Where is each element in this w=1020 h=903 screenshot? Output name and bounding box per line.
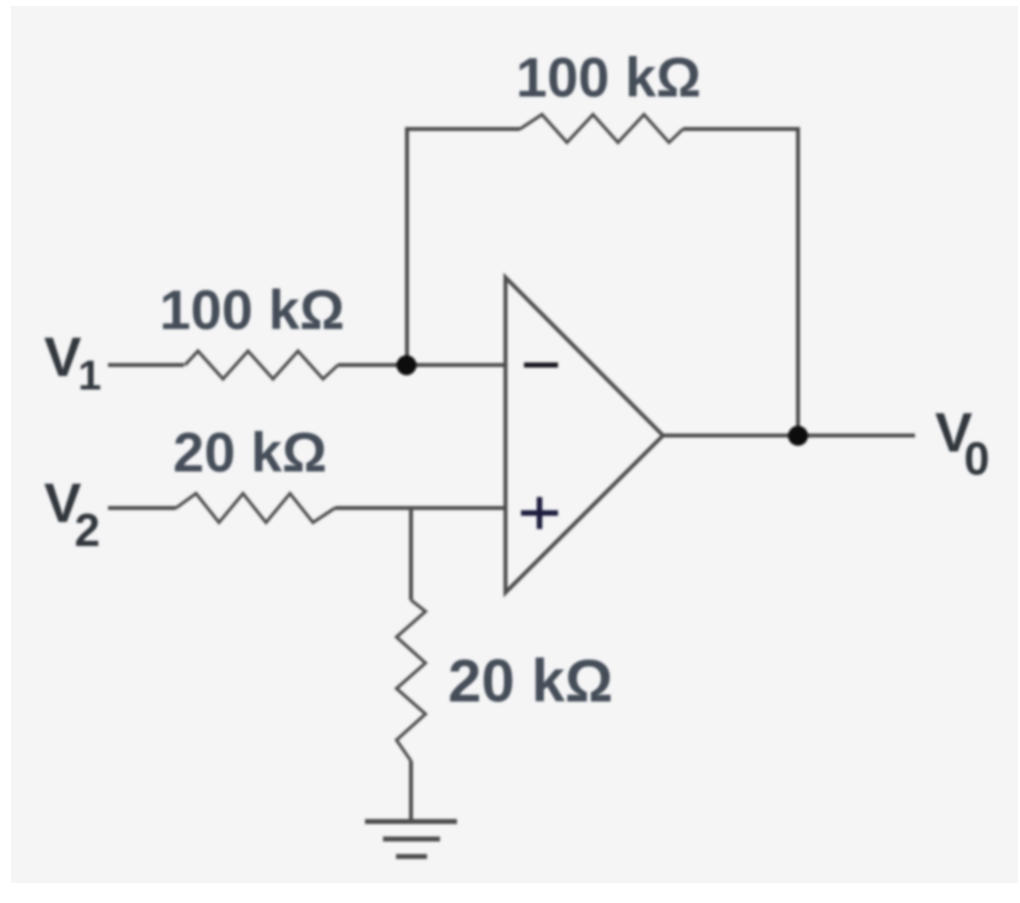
wire: feedback left vertical	[407, 129, 520, 365]
wire: V2 to R2	[108, 506, 176, 510]
svg-text:100 kΩ: 100 kΩ	[516, 46, 701, 109]
wire: non-inverting node down to R3	[409, 508, 413, 600]
resistor R2 20 k (V2 input)	[176, 494, 335, 523]
wire: V1 to R1	[108, 363, 184, 367]
wire: R3 to ground	[409, 761, 413, 821]
node: inverting input junction	[397, 355, 417, 375]
op-amp non-inverting input marker (plus)	[521, 497, 558, 529]
wire: op-amp output	[663, 434, 915, 438]
svg-text:V: V	[44, 325, 81, 388]
resistor Rf 100 k (feedback)	[520, 115, 683, 143]
node: output junction	[788, 426, 808, 446]
svg-text:1: 1	[78, 352, 101, 399]
resistor R3 20 k (to ground)	[397, 600, 426, 761]
ground	[365, 822, 457, 857]
op-amp inverting input marker (minus)	[524, 363, 558, 368]
svg-text:20 kΩ: 20 kΩ	[173, 421, 327, 484]
svg-text:0: 0	[964, 433, 990, 485]
wire: R2 to op-amp non-inverting input	[335, 506, 506, 510]
resistor R1 100 k (V1 input)	[185, 351, 338, 379]
svg-text:20 kΩ: 20 kΩ	[448, 648, 613, 715]
op-amp U1	[506, 278, 664, 593]
svg-text:100 kΩ: 100 kΩ	[159, 278, 344, 341]
svg-text:2: 2	[75, 504, 101, 556]
wire: feedback top right and right vertical	[683, 129, 798, 436]
wire: R1 to op-amp inverting input	[338, 363, 506, 367]
